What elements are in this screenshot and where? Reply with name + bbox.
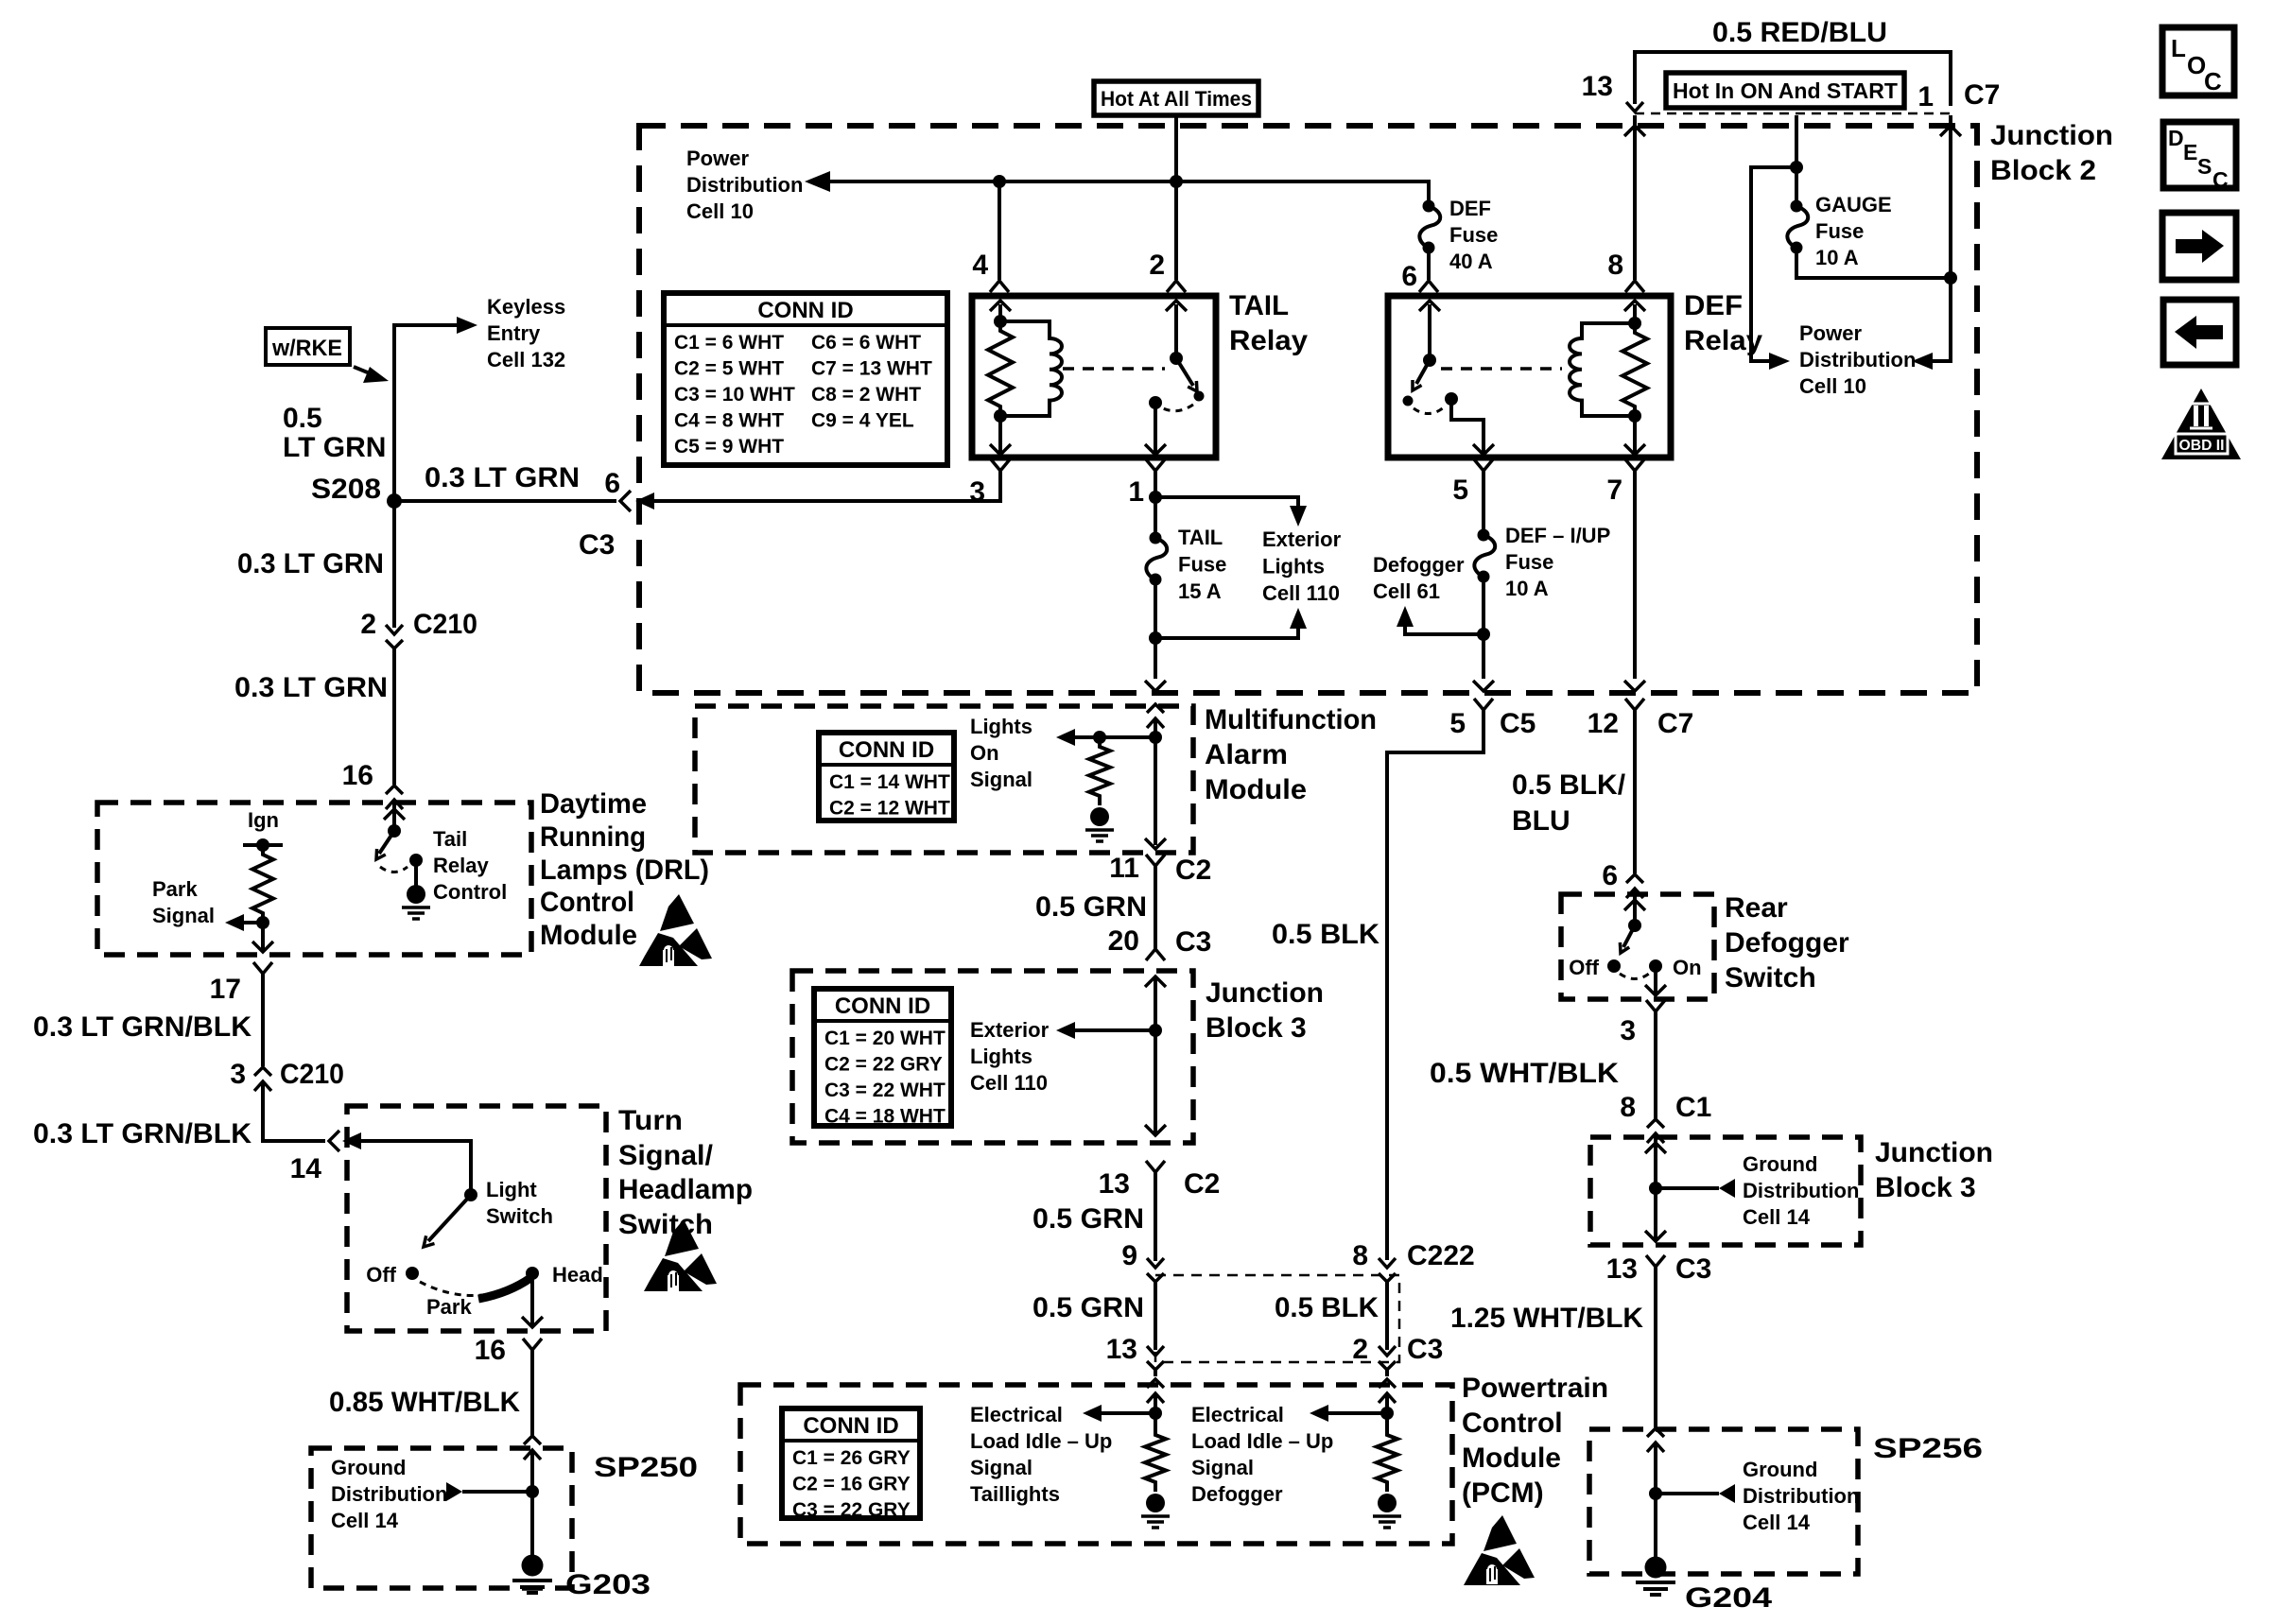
wire into PCM defogger <box>1385 1370 1389 1376</box>
svg-text:E: E <box>2183 140 2197 164</box>
wire tail relay control to ground <box>414 860 418 887</box>
label Electrical Load Idle-Up Signal Defogger <box>1191 1403 1333 1506</box>
svg-text:Fuse: Fuse <box>1815 219 1864 243</box>
svg-text:C2 = 22 GRY: C2 = 22 GRY <box>824 1054 943 1076</box>
svg-text:C2 = 12 WHT: C2 = 12 WHT <box>829 798 950 820</box>
DEF switch arm arrowhead <box>1413 380 1422 390</box>
svg-text:Distribution: Distribution <box>331 1482 447 1506</box>
relay switch moving contact <box>1194 391 1205 402</box>
wire SP250 internal <box>530 1450 534 1560</box>
wire PCM taillights internal <box>1154 1393 1157 1427</box>
svg-text:Relay: Relay <box>1229 325 1308 356</box>
wire C3 into JB2 <box>654 499 660 503</box>
w/RKE pointer arrowhead <box>363 367 389 383</box>
svg-text:Switch: Switch <box>618 1209 713 1240</box>
svg-text:Control: Control <box>1462 1408 1563 1439</box>
wire branch to defogger cell <box>1405 625 1484 634</box>
label Lights On Signal <box>970 715 1032 791</box>
connector 2 C210 <box>386 625 403 648</box>
wire pin 3 to C3 <box>660 471 1000 501</box>
svg-text:6: 6 <box>1602 860 1618 891</box>
wire park signal <box>242 921 263 924</box>
svg-text:Module: Module <box>1462 1443 1561 1474</box>
splice SP256 dashed box <box>1589 1429 1858 1574</box>
svg-text:Junction: Junction <box>1990 120 2113 151</box>
Y connector 16 <box>523 1339 542 1350</box>
svg-text:0.3 LT GRN: 0.3 LT GRN <box>234 672 388 703</box>
svg-text:13: 13 <box>1106 1334 1137 1365</box>
label Multifunction Alarm Module <box>1205 704 1377 805</box>
svg-text:C: C <box>2204 67 2222 95</box>
connector 8 C1 <box>1647 1119 1664 1143</box>
svg-text:Ground: Ground <box>1743 1152 1817 1176</box>
ESD turn signal <box>644 1219 717 1291</box>
svg-text:Power: Power <box>686 147 749 170</box>
svg-text:Cell 14: Cell 14 <box>331 1509 399 1532</box>
wire below gauge fuse <box>1796 248 1951 278</box>
arrow ground distribution SP256 <box>1719 1484 1735 1503</box>
svg-text:Ign: Ign <box>248 808 279 832</box>
arrow up exterior lights <box>1290 608 1307 629</box>
svg-text:Hot At All Times: Hot At All Times <box>1101 87 1252 111</box>
label Ground Distribution Cell 14 SP250 <box>331 1456 447 1532</box>
fuse GAUGE <box>1787 200 1808 254</box>
label DEF Fuse 40 A <box>1449 197 1498 273</box>
wire pin5 down <box>1482 471 1485 535</box>
svg-text:Cell 14: Cell 14 <box>1743 1205 1811 1229</box>
relay switch arm <box>1176 358 1193 386</box>
arrow electrical load defogger <box>1310 1405 1328 1422</box>
DRL tail relay control contact <box>409 854 423 867</box>
Y connector 11 C2 <box>1146 855 1165 866</box>
svg-text:S208: S208 <box>311 474 381 505</box>
light switch pivot <box>464 1188 477 1201</box>
svg-text:Turn: Turn <box>618 1105 683 1136</box>
ESD DRL <box>639 894 712 966</box>
arrow up into JB3 right <box>1645 1143 1666 1153</box>
svg-text:0.3 LT GRN: 0.3 LT GRN <box>237 548 384 579</box>
svg-text:Control: Control <box>433 880 507 904</box>
svg-text:1.25 WHT/BLK: 1.25 WHT/BLK <box>1450 1303 1643 1334</box>
wire branch to exterior lights bottom <box>1155 627 1298 638</box>
svg-text:Module: Module <box>540 920 637 951</box>
svg-text:OBD II: OBD II <box>2179 438 2225 454</box>
svg-text:Lights: Lights <box>970 715 1032 738</box>
junction ground distribution SP250 <box>526 1485 539 1498</box>
wire rear defogger output <box>1654 966 1657 995</box>
pin 2 chevron <box>1167 281 1186 292</box>
label Powertrain Control Module PCM <box>1462 1373 1608 1509</box>
chevron 20 C3 <box>1146 949 1165 960</box>
svg-text:Distribution: Distribution <box>1743 1179 1859 1202</box>
svg-text:Hot In ON And START: Hot In ON And START <box>1673 78 1898 103</box>
svg-text:8: 8 <box>1352 1240 1368 1271</box>
arrow down DRL exit <box>252 942 273 952</box>
svg-text:Signal: Signal <box>1191 1456 1254 1479</box>
svg-text:Ground: Ground <box>331 1456 406 1479</box>
svg-text:0.5: 0.5 <box>283 403 322 434</box>
arrow ground distribution JB3 <box>1719 1179 1735 1198</box>
powertrain control module dashed box <box>740 1385 1452 1544</box>
svg-text:0.5 GRN: 0.5 GRN <box>1032 1203 1144 1235</box>
wire electrical load taillights <box>1100 1411 1155 1415</box>
resistor PCM taillights idle-up <box>1145 1425 1166 1492</box>
arrow into power distribution right <box>1912 353 1933 370</box>
Y connector 3 <box>1646 1000 1665 1011</box>
svg-text:10 A: 10 A <box>1505 577 1549 600</box>
svg-text:C2 = 16 GRY: C2 = 16 GRY <box>792 1474 911 1495</box>
svg-text:Alarm: Alarm <box>1205 739 1288 770</box>
junction on C7 riser <box>1944 271 1957 285</box>
rear defogger pivot <box>1628 919 1641 932</box>
relay DEF actuation dashed link <box>1441 367 1562 371</box>
relay switch pivot <box>1170 352 1183 365</box>
hot at all times box <box>1094 81 1258 115</box>
svg-text:C7: C7 <box>1964 79 2000 111</box>
rear defogger arm <box>1623 925 1635 947</box>
svg-text:8: 8 <box>1607 250 1623 281</box>
arrow at JB2 bottom C7-12 <box>1624 681 1645 691</box>
legend LOC box <box>2162 27 2234 95</box>
svg-text:0.5 BLK: 0.5 BLK <box>1275 1292 1379 1323</box>
svg-text:Power: Power <box>1799 321 1862 345</box>
svg-text:C210: C210 <box>280 1059 344 1090</box>
wire SP256 internal <box>1654 1443 1657 1562</box>
svg-text:C4 = 18 WHT: C4 = 18 WHT <box>824 1106 946 1128</box>
junction pin1 lower branch <box>1149 631 1162 645</box>
label Park Signal <box>152 877 215 927</box>
svg-text:2: 2 <box>1352 1334 1368 1365</box>
svg-text:SP250: SP250 <box>594 1452 698 1483</box>
hot in on and start box <box>1666 73 1904 108</box>
wire lights on signal <box>1073 735 1155 739</box>
svg-text:TAIL: TAIL <box>1178 526 1223 549</box>
svg-text:Lamps (DRL): Lamps (DRL) <box>540 855 709 886</box>
wire 0.3 LT GRN/BLK lower <box>263 1081 325 1141</box>
label Light Switch <box>486 1178 553 1228</box>
svg-text:Rear: Rear <box>1725 892 1788 924</box>
svg-text:Junction: Junction <box>1875 1137 1993 1168</box>
svg-text:1: 1 <box>1917 81 1934 112</box>
svg-text:Multifunction: Multifunction <box>1205 704 1377 735</box>
svg-text:Off: Off <box>1569 956 1599 979</box>
label 0.5 BLK/BLU <box>1512 769 1626 837</box>
legend DESC box <box>2163 122 2236 192</box>
wire PCM defogger internal <box>1385 1393 1389 1427</box>
arrow down DEF pin7 internal <box>1624 444 1645 455</box>
svg-text:20: 20 <box>1108 925 1139 957</box>
connector chevron 6 C3 male <box>620 491 631 511</box>
ground G203 symbol <box>512 1555 552 1594</box>
svg-text:Cell 14: Cell 14 <box>1743 1511 1811 1534</box>
wire 0.5 BLK from C5 <box>1387 710 1484 1260</box>
wire bus to pin 4 <box>998 181 1001 280</box>
arrow at JB2 bottom multifunction <box>1145 681 1166 691</box>
connector into SP250 <box>524 1436 541 1460</box>
light switch arm arrowhead <box>424 1235 435 1247</box>
svg-text:C5: C5 <box>1500 708 1536 739</box>
svg-text:Tail: Tail <box>433 827 467 851</box>
svg-text:3: 3 <box>1620 1015 1636 1046</box>
label Keyless Entry Cell 132 <box>487 295 565 371</box>
svg-text:C3 = 22 WHT: C3 = 22 WHT <box>824 1080 946 1101</box>
svg-text:CONN ID: CONN ID <box>803 1413 898 1439</box>
arrow up DEF pin8 internal <box>1624 301 1645 311</box>
rear defogger Off contact <box>1607 959 1621 973</box>
svg-text:TAIL: TAIL <box>1229 290 1289 321</box>
w/RKE option box <box>266 328 350 365</box>
label Exterior Lights Cell 110 <box>1262 527 1342 605</box>
wire C210 to DRL <box>392 648 396 785</box>
wire DEF output to pin 5 <box>1451 399 1484 455</box>
conn id table JB3 <box>814 989 951 1128</box>
wire to ground distribution arrow right <box>1656 1186 1719 1190</box>
DEF switch moving contact <box>1403 396 1414 406</box>
svg-text:40 A: 40 A <box>1449 250 1493 273</box>
arrow ground distribution SP250 <box>446 1482 462 1501</box>
label Junction Block 3 center <box>1206 977 1324 1044</box>
svg-text:C9 = 4 YEL: C9 = 4 YEL <box>811 410 914 432</box>
daytime running lamps control module dashed box <box>97 803 531 955</box>
wire DRL input <box>392 800 396 831</box>
junction block 3 center dashed box <box>792 971 1193 1143</box>
resistor PCM defogger idle-up <box>1377 1425 1397 1492</box>
svg-text:C3 = 22 GRY: C3 = 22 GRY <box>792 1499 911 1521</box>
svg-text:Distribution: Distribution <box>1799 348 1916 371</box>
svg-text:16: 16 <box>475 1335 506 1366</box>
pin 4 chevron <box>990 281 1009 292</box>
connector 2 PCM <box>1379 1346 1396 1370</box>
label Tail Relay Control <box>433 827 507 904</box>
relay DEF box <box>1388 296 1671 458</box>
svg-text:12: 12 <box>1588 708 1619 739</box>
svg-text:2: 2 <box>360 609 376 640</box>
legend left-arrow box <box>2163 300 2236 365</box>
wire exterior lights JB3 <box>1073 1028 1155 1032</box>
svg-text:0.5 RED/BLU: 0.5 RED/BLU <box>1712 17 1887 48</box>
svg-text:7: 7 <box>1606 475 1622 506</box>
svg-text:C5 = 9 WHT: C5 = 9 WHT <box>674 436 784 458</box>
light switch arm <box>428 1195 471 1241</box>
pin 1 Y <box>1146 459 1165 471</box>
svg-text:C3 = 10 WHT: C3 = 10 WHT <box>674 384 795 406</box>
svg-text:On: On <box>970 741 999 765</box>
splice SP250 dashed box <box>311 1448 572 1588</box>
wire keyless entry <box>394 325 468 501</box>
label DRL Control Module <box>540 788 709 951</box>
junction defogger branch <box>1477 628 1490 641</box>
svg-text:Defogger: Defogger <box>1373 553 1465 577</box>
junction gauge top <box>1790 161 1803 174</box>
connector 13 PCM <box>1147 1346 1164 1370</box>
svg-text:Module: Module <box>1205 774 1307 805</box>
svg-text:C1 = 26 GRY: C1 = 26 GRY <box>792 1447 911 1469</box>
conn id table junction block 2 <box>664 293 947 465</box>
relay switch travel arc <box>1163 405 1193 411</box>
wire DEF pin8 internal <box>1633 304 1637 323</box>
connector arrow 6 C3 female <box>635 492 654 510</box>
DRL switch travel arc <box>380 867 408 872</box>
coil DEF relay <box>1570 323 1635 416</box>
svg-text:C7: C7 <box>1657 708 1693 739</box>
junction block 2 dashed box <box>639 126 1977 693</box>
wire JB3 center internal <box>1154 976 1157 1135</box>
DEF coil bottom node <box>1628 409 1641 423</box>
label DEF Relay <box>1684 290 1762 356</box>
DRL switch arm <box>379 831 394 854</box>
DEF switch pivot <box>1423 354 1436 367</box>
arrow down MAM exit <box>1145 838 1166 849</box>
svg-text:C6 = 6 WHT: C6 = 6 WHT <box>811 332 921 354</box>
arrow up DEF pin6 internal <box>1419 301 1440 311</box>
C5 Y connector <box>1474 699 1493 710</box>
C222 inline connector dashed box <box>1155 1275 1399 1362</box>
svg-text:Lights: Lights <box>1262 555 1325 579</box>
Ign terminal bar <box>243 843 283 847</box>
light switch wiper thick arc <box>478 1278 530 1299</box>
DEF switch output contact <box>1445 392 1458 406</box>
pin 5 Y <box>1474 459 1493 471</box>
wire 0.5 BLK 3 <box>1385 1282 1389 1350</box>
svg-text:9: 9 <box>1121 1240 1137 1271</box>
label 0.5 LT GRN <box>283 403 386 463</box>
wire DEF pin6 internal <box>1428 304 1431 360</box>
wire pin13 to DEF relay pin 8 <box>1633 115 1637 280</box>
svg-text:C3: C3 <box>1675 1253 1711 1285</box>
label Rear Defogger Switch <box>1725 892 1849 993</box>
wire relay pin2 internal <box>1174 304 1178 358</box>
svg-text:Distribution: Distribution <box>1743 1484 1859 1508</box>
wire 0.5 GRN 2 <box>1154 1172 1157 1261</box>
wire below TAIL fuse <box>1154 579 1157 679</box>
resistor DEF relay coil-suppress <box>1622 323 1647 416</box>
svg-text:0.85 WHT/BLK: 0.85 WHT/BLK <box>329 1387 520 1418</box>
svg-text:w/RKE: w/RKE <box>271 336 342 361</box>
connector arrow 14 female <box>342 1132 361 1149</box>
svg-text:D: D <box>2168 126 2184 150</box>
wire 0.5 RED/BLU loop <box>1635 52 1951 106</box>
arrow into JB2 pin1 C7 <box>1940 126 1961 136</box>
svg-text:Powertrain: Powertrain <box>1462 1373 1608 1404</box>
junction ground distribution SP256 <box>1649 1487 1662 1500</box>
svg-text:Electrical: Electrical <box>970 1403 1063 1426</box>
junction block 3 right dashed box <box>1590 1137 1861 1245</box>
arrow down JB3 right exit <box>1645 1231 1666 1241</box>
svg-text:11: 11 <box>1109 853 1139 884</box>
connector chevron pin13 <box>1626 102 1643 112</box>
svg-text:Fuse: Fuse <box>1505 550 1553 574</box>
Y connector 17 <box>253 962 272 974</box>
label Exterior Lights Cell 110 JB3 <box>970 1018 1050 1095</box>
wire into rear defogger switch <box>1633 889 1637 925</box>
svg-text:0.3 LT GRN/BLK: 0.3 LT GRN/BLK <box>33 1011 252 1043</box>
svg-text:C1 = 20 WHT: C1 = 20 WHT <box>824 1028 946 1049</box>
svg-text:C3: C3 <box>579 529 615 561</box>
pin 7 Y <box>1625 459 1644 471</box>
label TAIL Relay <box>1229 290 1308 356</box>
svg-text:Control: Control <box>540 887 634 918</box>
arrow up into JB3 center <box>1145 976 1166 987</box>
wire pin7 down <box>1633 471 1637 679</box>
svg-text:C1 = 6 WHT: C1 = 6 WHT <box>674 332 784 354</box>
junction electrical load defogger <box>1380 1407 1394 1420</box>
junction ground distribution right <box>1649 1182 1662 1195</box>
arrow up rear defogger input <box>1624 900 1645 910</box>
wire DEF fuse to pin 6 <box>1427 248 1431 280</box>
resistor DRL park signal <box>252 845 273 923</box>
arrow park signal <box>225 914 244 931</box>
junction lights on signal <box>1149 731 1162 744</box>
wire to ground distribution arrow SP256 <box>1656 1492 1719 1495</box>
svg-text:LT GRN: LT GRN <box>283 432 386 463</box>
arrow up pin4 internal <box>990 301 1011 311</box>
relay switch common contact <box>1149 396 1162 409</box>
rear defogger travel arc <box>1620 974 1649 979</box>
svg-text:Fuse: Fuse <box>1449 223 1498 247</box>
node S208 dot <box>387 493 402 509</box>
svg-text:13: 13 <box>1582 71 1613 102</box>
light switch Off contact <box>406 1267 419 1280</box>
junction bus hot-at-all-times <box>1170 175 1183 188</box>
svg-text:Cell 132: Cell 132 <box>487 348 565 371</box>
svg-text:Headlamp: Headlamp <box>618 1174 753 1205</box>
arrow into JB2 pin13 <box>1624 126 1645 136</box>
svg-text:C3: C3 <box>1407 1334 1443 1365</box>
svg-text:13: 13 <box>1099 1168 1130 1200</box>
wire MAM internal <box>1154 718 1157 845</box>
wire gauge fuse riser <box>1795 115 1798 206</box>
svg-text:Relay: Relay <box>1684 325 1762 356</box>
light switch Head contact <box>526 1267 539 1280</box>
wire gauge branch left <box>1751 167 1796 361</box>
wire 0.5 BLK/BLU down <box>1633 710 1637 873</box>
svg-text:DEF: DEF <box>1684 290 1743 321</box>
svg-text:Daytime: Daytime <box>540 788 647 820</box>
svg-text:CONN ID: CONN ID <box>835 993 930 1019</box>
svg-text:Exterior: Exterior <box>970 1018 1050 1042</box>
multifunction alarm module dashed box <box>695 706 1193 853</box>
arrow down rear defogger output <box>1645 985 1666 995</box>
svg-text:17: 17 <box>210 974 241 1005</box>
ground PCM taillights <box>1141 1494 1170 1528</box>
pin 3 Y <box>991 459 1010 471</box>
wire relay common to pin1 <box>1154 403 1157 455</box>
svg-text:Head: Head <box>552 1263 603 1287</box>
connector PCM entry defogger <box>1379 1379 1396 1403</box>
turn signal headlamp switch dashed box <box>347 1106 606 1331</box>
wire 0.3 LT GRN/BLK upper <box>261 974 265 1066</box>
svg-text:Load Idle – Up: Load Idle – Up <box>970 1429 1112 1453</box>
wire C7 pin1 down <box>1929 115 1951 361</box>
label Defogger Cell 61 <box>1373 553 1465 603</box>
ESD PCM <box>1464 1515 1535 1585</box>
wire 0.5 WHT/BLK <box>1654 1011 1657 1119</box>
svg-text:0.3 LT GRN/BLK: 0.3 LT GRN/BLK <box>33 1118 252 1149</box>
wire S208 down <box>392 501 396 628</box>
connector 6 rear defogger <box>1626 874 1643 898</box>
arrow down DEF pin5 internal <box>1473 444 1494 455</box>
label Power Distribution Cell 10 left <box>686 147 803 223</box>
svg-text:Block 3: Block 3 <box>1206 1012 1307 1044</box>
svg-text:C1 = 14 WHT: C1 = 14 WHT <box>829 771 950 793</box>
arrow keyless entry <box>457 317 477 334</box>
junction exterior lights JB3 <box>1149 1024 1162 1037</box>
svg-text:BLU: BLU <box>1512 805 1570 837</box>
label Ground Distribution Cell 14 JB3 <box>1743 1152 1859 1229</box>
arrow down JB3 center exit <box>1145 1125 1166 1135</box>
resistor MAM <box>1089 737 1110 805</box>
arrow down pin1 internal <box>1145 444 1166 455</box>
